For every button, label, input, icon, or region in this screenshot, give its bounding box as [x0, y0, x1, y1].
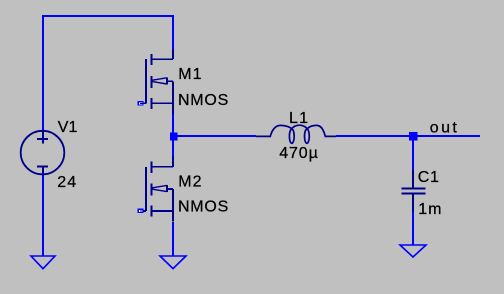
svg-text:24: 24	[57, 174, 77, 191]
svg-text:NMOS: NMOS	[178, 92, 229, 109]
svg-text:C1: C1	[418, 169, 440, 186]
svg-text:470µ: 470µ	[279, 145, 319, 162]
svg-text:out: out	[430, 120, 459, 137]
svg-text:V1: V1	[58, 119, 78, 136]
svg-text:1m: 1m	[418, 201, 442, 218]
svg-text:L1: L1	[289, 110, 309, 127]
svg-text:NMOS: NMOS	[178, 199, 229, 216]
svg-text:M1: M1	[178, 66, 202, 83]
svg-text:M2: M2	[178, 173, 202, 190]
